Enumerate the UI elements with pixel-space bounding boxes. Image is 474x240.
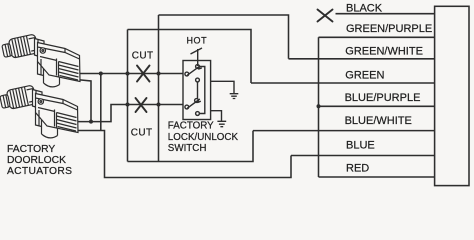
- svg-text:FACTORY: FACTORY: [168, 120, 214, 131]
- svg-text:LOCK/UNLOCK: LOCK/UNLOCK: [168, 132, 239, 143]
- svg-text:SWITCH: SWITCH: [168, 143, 207, 154]
- svg-text:CUT: CUT: [132, 50, 154, 61]
- svg-text:HOT: HOT: [187, 36, 208, 46]
- svg-text:GREEN/WHITE: GREEN/WHITE: [345, 46, 423, 58]
- svg-text:DOORLOCK: DOORLOCK: [7, 155, 66, 166]
- svg-text:FACTORY: FACTORY: [7, 144, 55, 155]
- svg-text:CUT: CUT: [131, 127, 153, 138]
- svg-text:BLUE/WHITE: BLUE/WHITE: [345, 115, 412, 127]
- svg-text:GREEN: GREEN: [345, 70, 384, 82]
- svg-text:BLUE: BLUE: [346, 139, 375, 151]
- svg-text:GREEN/PURPLE: GREEN/PURPLE: [346, 23, 432, 35]
- svg-text:ACTUATORS: ACTUATORS: [7, 166, 72, 177]
- svg-text:BLACK: BLACK: [346, 3, 383, 15]
- svg-text:BLUE/PURPLE: BLUE/PURPLE: [345, 92, 421, 104]
- svg-text:RED: RED: [346, 162, 369, 174]
